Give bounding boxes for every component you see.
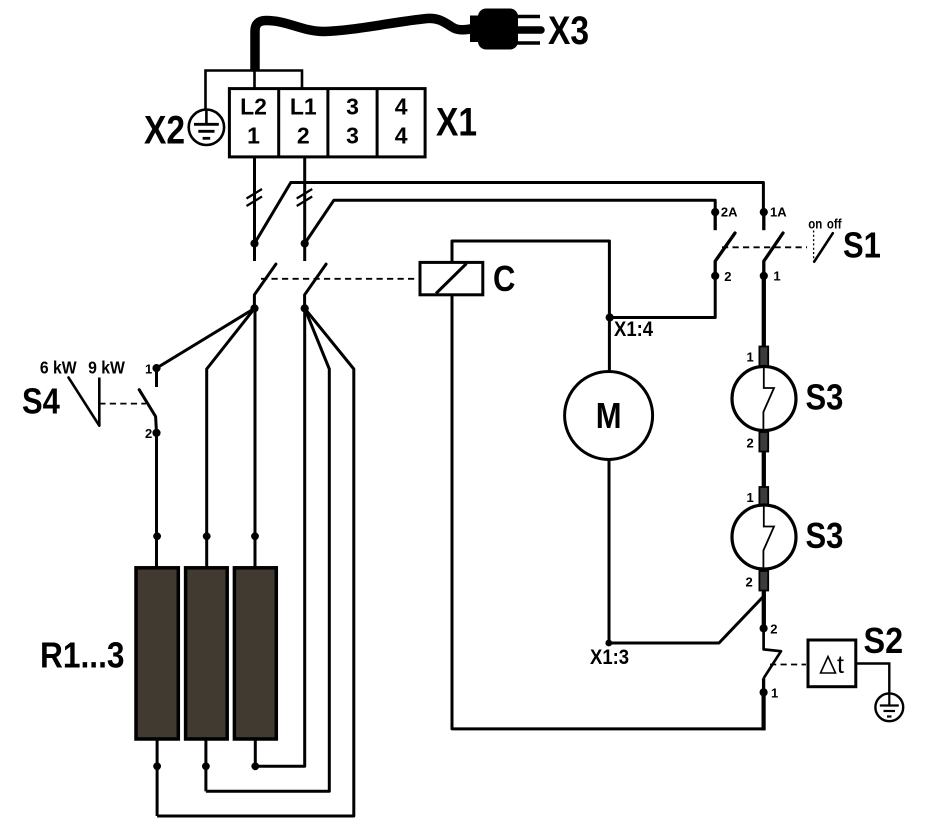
svg-text:4: 4 <box>395 94 408 120</box>
svg-text:1: 1 <box>247 123 260 149</box>
svg-text:M: M <box>596 397 622 437</box>
svg-text:S2: S2 <box>864 621 904 661</box>
svg-text:9 kW: 9 kW <box>88 358 125 378</box>
svg-text:S3: S3 <box>806 517 844 557</box>
svg-text:2: 2 <box>724 269 731 284</box>
svg-text:1: 1 <box>747 490 754 505</box>
svg-text:1: 1 <box>747 350 754 365</box>
svg-text:1: 1 <box>771 686 778 701</box>
svg-text:S3: S3 <box>806 378 844 418</box>
svg-text:1: 1 <box>145 361 152 376</box>
svg-text:R1...3: R1...3 <box>40 636 124 676</box>
svg-text:t: t <box>837 651 844 679</box>
svg-text:X1: X1 <box>436 100 477 144</box>
svg-text:1: 1 <box>773 269 780 284</box>
svg-text:X3: X3 <box>548 8 589 52</box>
svg-text:X1:3: X1:3 <box>590 646 629 669</box>
svg-text:2: 2 <box>747 436 754 451</box>
svg-text:3: 3 <box>346 94 359 120</box>
svg-text:off: off <box>827 217 842 232</box>
svg-text:S1: S1 <box>843 226 881 266</box>
svg-text:X1:4: X1:4 <box>614 318 653 341</box>
svg-text:2A: 2A <box>721 204 738 219</box>
svg-text:X2: X2 <box>144 108 185 152</box>
svg-text:6 kW: 6 kW <box>40 358 77 378</box>
svg-text:2: 2 <box>145 426 152 441</box>
svg-text:L1: L1 <box>290 94 317 120</box>
svg-text:S4: S4 <box>22 382 60 422</box>
svg-text:4: 4 <box>395 123 408 149</box>
svg-text:1A: 1A <box>770 204 787 219</box>
svg-text:3: 3 <box>346 123 359 149</box>
svg-text:C: C <box>493 260 515 300</box>
svg-text:2: 2 <box>297 123 310 149</box>
svg-text:on: on <box>808 217 822 232</box>
svg-text:2: 2 <box>746 575 753 590</box>
svg-text:2: 2 <box>770 621 777 636</box>
svg-text:L2: L2 <box>240 94 267 120</box>
